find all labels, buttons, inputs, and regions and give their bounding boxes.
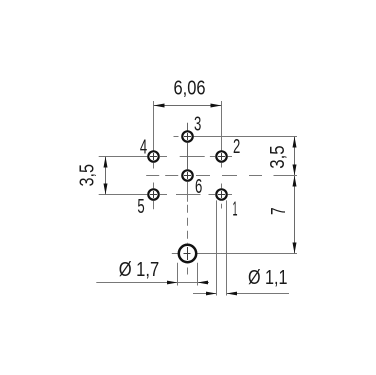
dash right of pin 1 — [228, 194, 232, 196]
arrow right-pointing at left extension of O 1,7 — [167, 281, 178, 285]
extension line bottom-left 3,5 (pin 5 row) — [99, 194, 148, 196]
extension line pin 3 row to right dimension — [194, 136, 297, 138]
pin 4 hole — [148, 151, 158, 161]
dash below pin 5 — [153, 201, 155, 209]
dashed vertical centerline pin 6 to big circle — [187, 182, 189, 244]
arrow up right 7 — [293, 176, 297, 187]
svg-text:4: 4 — [140, 137, 147, 159]
center cross pin 6 — [184, 175, 191, 177]
dashed centerline row pin 6 right part — [196, 175, 297, 177]
arrow down right 7 — [293, 243, 297, 254]
dimension line right 7 — [294, 176, 296, 254]
dimension line O 1,1 left tail — [193, 293, 217, 295]
svg-text:6,06: 6,06 — [174, 77, 206, 99]
svg-text:3,5: 3,5 — [267, 145, 289, 168]
big mounting hole O 1,7 — [179, 245, 196, 262]
dimension line left 3,5 — [105, 157, 107, 195]
dash above pin 5 — [153, 183, 155, 189]
extension line right of top dimension (to pin 2) — [221, 101, 223, 151]
extension line left of big circle (O 1,7) — [177, 263, 179, 286]
arrow right of 6,06 — [211, 104, 222, 108]
leader line O 1,7 — [96, 282, 177, 284]
svg-text:2: 2 — [233, 136, 240, 158]
vertical centerline pin 3 to pin 6 — [187, 143, 189, 170]
dash below pin 2 — [221, 163, 223, 168]
center cross pin 2 — [218, 156, 225, 158]
dash below pin 1 — [221, 204, 223, 209]
svg-text:3: 3 — [194, 113, 201, 135]
extension line top-left 3,5 (pin 4 row) — [99, 156, 148, 158]
vertical centerline above pin 3 — [187, 123, 189, 131]
arrow left-pointing at right extension of O 1,7 — [198, 281, 209, 285]
leader line O 1,1 right tail — [227, 293, 290, 295]
dimension line between O 1,7 extensions — [178, 282, 210, 284]
dash above pin 4 — [153, 143, 155, 150]
svg-text:7: 7 — [268, 207, 290, 215]
dimension line right 3,5 — [294, 137, 296, 176]
svg-text:Ø 1,1: Ø 1,1 — [248, 267, 288, 289]
svg-text:6: 6 — [195, 176, 202, 198]
arrow right-pointing at left extension of O 1,1 — [206, 292, 217, 296]
pin 2 hole — [216, 151, 226, 161]
dash below big circle — [187, 268, 189, 275]
dashed centerline row pins 5-1 — [160, 194, 215, 196]
dash below pin 4 — [153, 163, 155, 169]
center cross pin 3 — [184, 136, 191, 138]
svg-text:1: 1 — [233, 199, 238, 221]
arrow down right 3,5 — [293, 165, 297, 176]
extension line right of big circle (O 1,7) — [197, 263, 199, 286]
arrow left-pointing at right extension of O 1,1 — [227, 292, 238, 296]
extension line right below pin 1 (O 1,1) — [226, 200, 228, 295]
dashed centerline row pins 4-2 — [160, 156, 215, 158]
pin 1 hole — [216, 189, 226, 199]
center cross pin 5 — [150, 194, 157, 196]
dash right of pin 2 — [228, 156, 232, 158]
center cross pin 1 — [218, 194, 225, 196]
dash above pin 1 — [221, 184, 223, 189]
dashed centerline row pin 6 left part — [146, 175, 181, 177]
svg-text:Ø 1,7: Ø 1,7 — [119, 259, 160, 281]
center cross big circle — [184, 253, 191, 255]
svg-text:3,5: 3,5 — [77, 164, 99, 187]
pin 5 hole — [148, 189, 158, 199]
arrow left of 6,06 — [154, 104, 165, 108]
arrow up left 3,5 — [104, 157, 108, 168]
dimension line 6,06 — [154, 105, 222, 107]
arrow down left 3,5 — [104, 184, 108, 195]
dash left of pin 3 — [174, 136, 179, 138]
pin 6 hole — [182, 170, 192, 180]
center cross pin 4 — [150, 156, 157, 158]
extension line big-circle row to right dimension — [172, 253, 179, 255]
extension line left of top dimension (to pin 4) — [153, 101, 155, 151]
pin 3 hole — [182, 131, 192, 141]
extension line left below pin 1 (O 1,1) — [216, 200, 218, 295]
arrow up right 3,5 — [293, 137, 297, 148]
svg-text:5: 5 — [137, 196, 144, 218]
